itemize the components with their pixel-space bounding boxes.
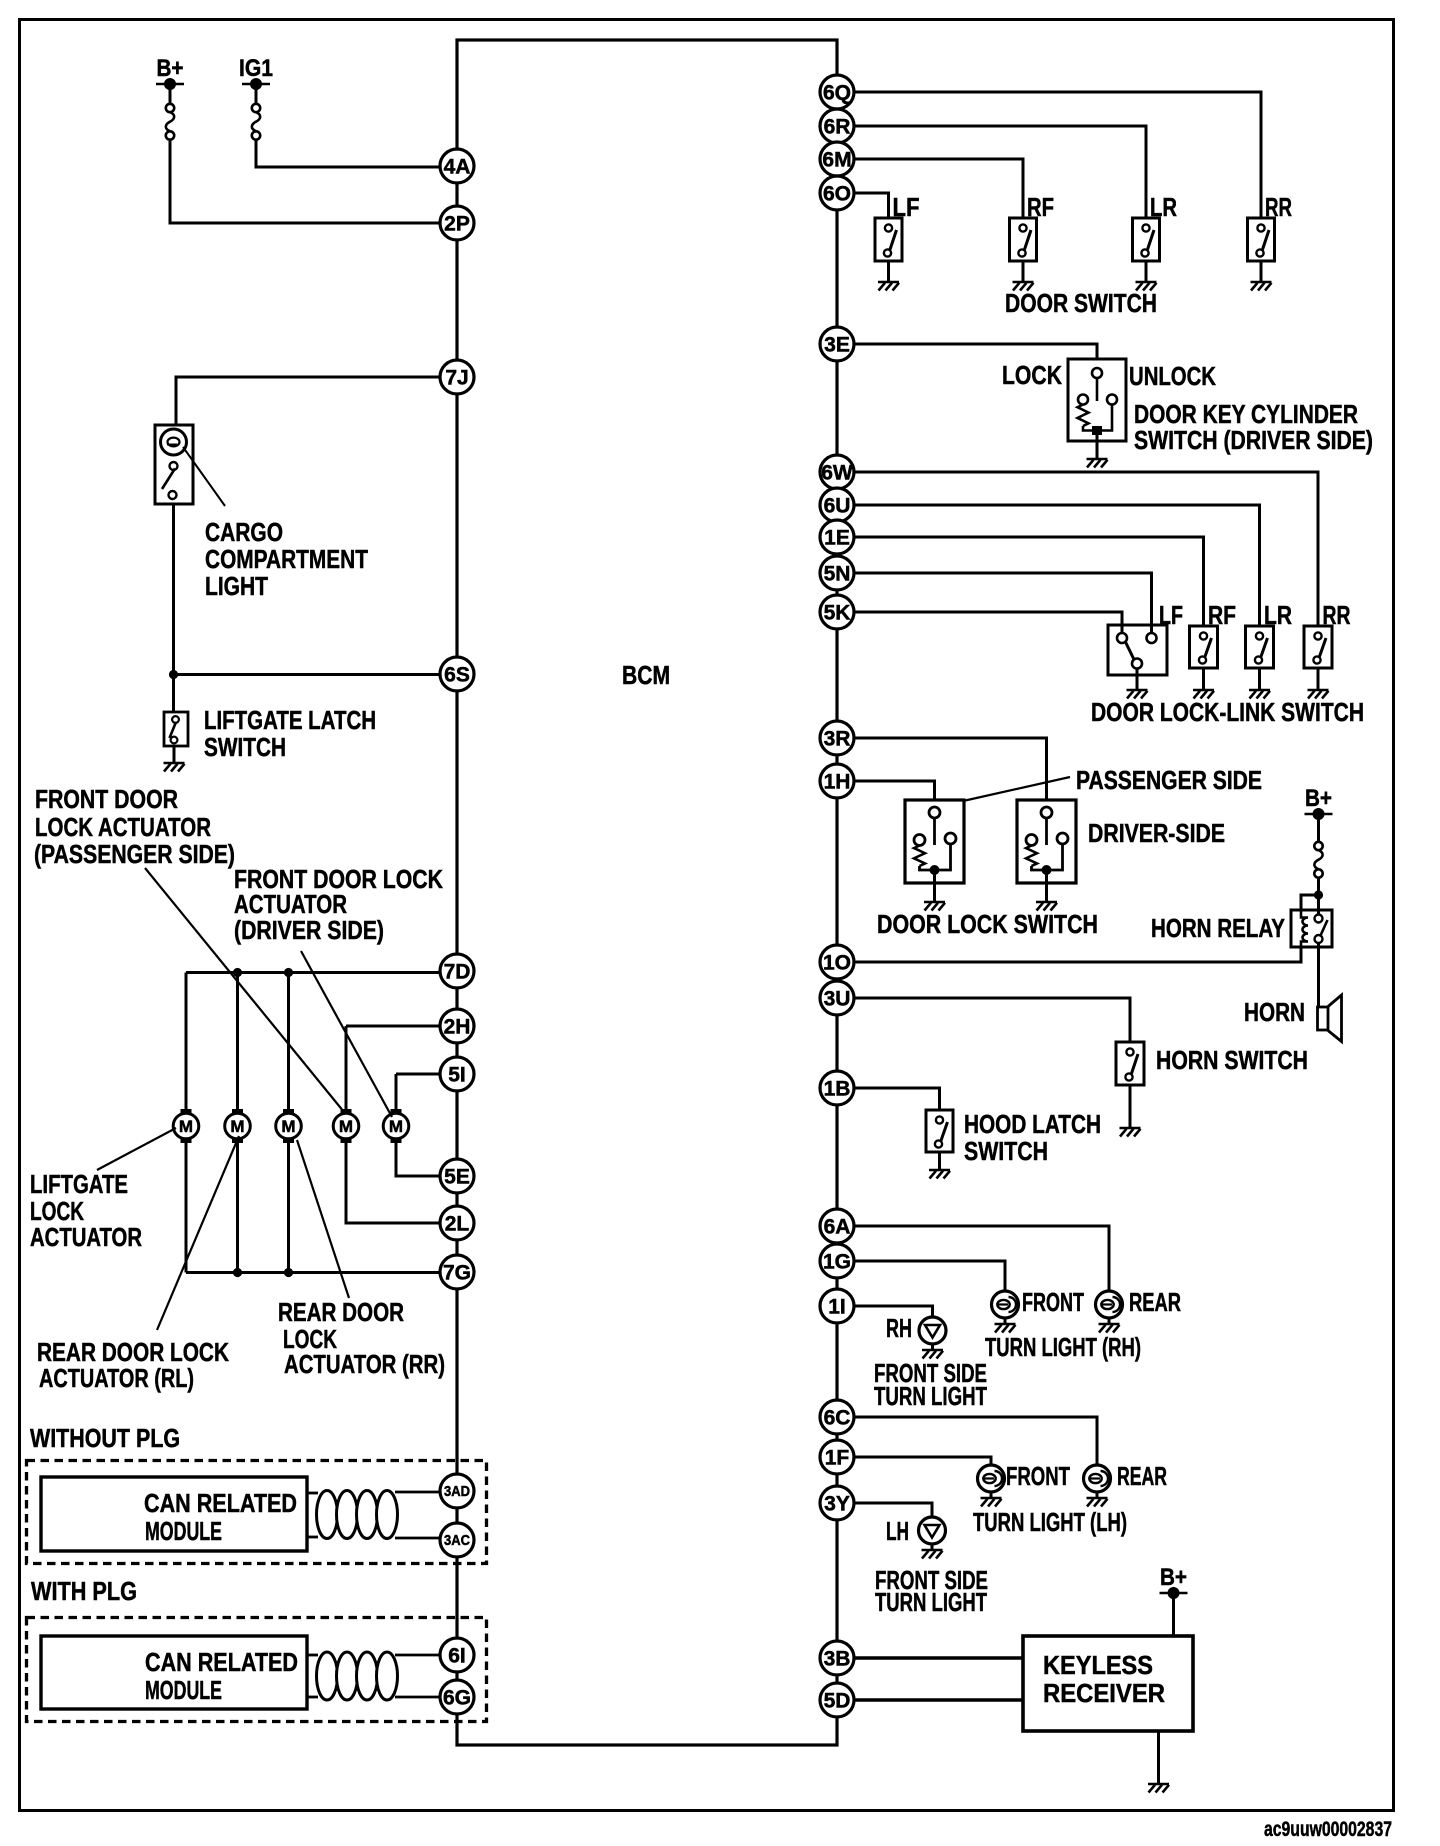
svg-text:6S: 6S (444, 664, 470, 687)
svg-text:6A: 6A (824, 1216, 851, 1239)
svg-text:7D: 7D (444, 961, 471, 984)
svg-text:LR: LR (1264, 600, 1292, 630)
svg-text:5I: 5I (448, 1064, 466, 1087)
svg-text:B+: B+ (1305, 785, 1332, 812)
svg-text:PASSENGER SIDE: PASSENGER SIDE (1076, 765, 1262, 795)
svg-text:3U: 3U (824, 988, 851, 1011)
svg-text:WITH PLG: WITH PLG (31, 1576, 137, 1606)
svg-text:CAN RELATED: CAN RELATED (145, 1647, 298, 1677)
svg-text:3B: 3B (824, 1648, 851, 1671)
svg-text:5E: 5E (444, 1166, 470, 1189)
svg-text:RR: RR (1265, 192, 1292, 222)
svg-text:2L: 2L (445, 1213, 470, 1236)
svg-text:1F: 1F (825, 1447, 850, 1470)
svg-text:3R: 3R (824, 728, 851, 751)
svg-text:UNLOCK: UNLOCK (1129, 361, 1216, 391)
svg-text:RECEIVER: RECEIVER (1043, 1678, 1165, 1708)
svg-text:6M: 6M (822, 149, 851, 172)
svg-text:5N: 5N (824, 563, 851, 586)
svg-text:(PASSENGER SIDE): (PASSENGER SIDE) (34, 839, 235, 869)
svg-text:RF: RF (1027, 192, 1054, 222)
svg-text:3AC: 3AC (444, 1533, 470, 1549)
svg-text:LH: LH (886, 1516, 909, 1546)
svg-text:ACTUATOR: ACTUATOR (30, 1222, 142, 1252)
svg-text:CARGO: CARGO (205, 517, 283, 547)
svg-text:RH: RH (886, 1313, 912, 1343)
svg-text:M: M (179, 1117, 193, 1136)
svg-text:TURN LIGHT: TURN LIGHT (875, 1587, 987, 1617)
svg-text:6O: 6O (823, 183, 851, 206)
svg-text:6U: 6U (824, 495, 851, 518)
svg-text:1I: 1I (828, 1296, 846, 1319)
svg-text:FRONT DOOR: FRONT DOOR (35, 784, 178, 814)
svg-text:ACTUATOR (RL): ACTUATOR (RL) (39, 1363, 194, 1393)
svg-text:LOCK ACTUATOR: LOCK ACTUATOR (35, 812, 211, 842)
svg-text:TURN LIGHT (LH): TURN LIGHT (LH) (973, 1507, 1127, 1537)
svg-text:2P: 2P (444, 213, 470, 236)
svg-text:LIFTGATE: LIFTGATE (30, 1169, 128, 1199)
svg-text:6R: 6R (824, 116, 851, 139)
svg-text:LIFTGATE LATCH: LIFTGATE LATCH (204, 705, 376, 735)
svg-text:KEYLESS: KEYLESS (1043, 1650, 1153, 1680)
svg-text:5D: 5D (824, 1690, 851, 1713)
svg-text:REAR: REAR (1129, 1287, 1181, 1317)
svg-text:6C: 6C (824, 1407, 851, 1430)
svg-text:IG1: IG1 (239, 55, 273, 82)
svg-text:(DRIVER SIDE): (DRIVER SIDE) (234, 915, 384, 945)
svg-text:6I: 6I (448, 1645, 466, 1668)
svg-text:LF: LF (893, 192, 920, 222)
svg-text:HORN: HORN (1244, 997, 1305, 1027)
svg-text:COMPARTMENT: COMPARTMENT (205, 544, 368, 574)
svg-text:LF: LF (1159, 600, 1183, 630)
svg-text:DRIVER-SIDE: DRIVER-SIDE (1088, 818, 1225, 848)
svg-text:MODULE: MODULE (145, 1675, 222, 1705)
svg-text:7G: 7G (443, 1262, 471, 1285)
svg-text:SWITCH (DRIVER SIDE): SWITCH (DRIVER SIDE) (1134, 425, 1373, 455)
svg-text:6G: 6G (443, 1687, 471, 1710)
svg-text:5K: 5K (824, 602, 851, 625)
svg-text:3Y: 3Y (824, 1493, 850, 1516)
svg-text:ACTUATOR (RR): ACTUATOR (RR) (284, 1349, 445, 1379)
svg-text:RR: RR (1323, 600, 1351, 630)
svg-text:REAR DOOR: REAR DOOR (278, 1297, 404, 1327)
svg-text:M: M (230, 1117, 244, 1136)
svg-text:1O: 1O (823, 952, 851, 975)
svg-text:B+: B+ (157, 55, 184, 82)
svg-text:MODULE: MODULE (145, 1516, 222, 1546)
svg-text:HORN SWITCH: HORN SWITCH (1156, 1045, 1308, 1075)
svg-text:FRONT: FRONT (1022, 1287, 1084, 1317)
svg-text:FRONT: FRONT (1006, 1461, 1070, 1491)
svg-text:M: M (281, 1117, 295, 1136)
svg-text:BCM: BCM (622, 660, 670, 690)
svg-text:HORN RELAY: HORN RELAY (1151, 913, 1285, 943)
svg-text:LIGHT: LIGHT (205, 571, 268, 601)
svg-text:LR: LR (1150, 192, 1177, 222)
svg-text:WITHOUT PLG: WITHOUT PLG (30, 1423, 180, 1453)
svg-text:1B: 1B (824, 1078, 851, 1101)
svg-text:SWITCH: SWITCH (204, 732, 286, 762)
svg-text:4A: 4A (444, 156, 471, 179)
svg-text:6W: 6W (821, 462, 853, 485)
svg-text:CAN RELATED: CAN RELATED (144, 1488, 297, 1518)
svg-text:ac9uuw00002837: ac9uuw00002837 (1264, 1818, 1392, 1841)
svg-text:B+: B+ (1160, 1564, 1187, 1591)
svg-text:DOOR LOCK SWITCH: DOOR LOCK SWITCH (877, 909, 1098, 939)
svg-text:HOOD LATCH: HOOD LATCH (964, 1109, 1101, 1139)
svg-text:M: M (389, 1117, 403, 1136)
svg-text:6Q: 6Q (823, 82, 851, 105)
svg-text:7J: 7J (445, 367, 468, 390)
svg-text:DOOR LOCK-LINK SWITCH: DOOR LOCK-LINK SWITCH (1091, 697, 1364, 727)
svg-text:1E: 1E (824, 527, 850, 550)
svg-text:M: M (339, 1117, 353, 1136)
svg-text:3E: 3E (824, 334, 850, 357)
svg-text:LOCK: LOCK (1002, 360, 1062, 390)
svg-text:RF: RF (1208, 600, 1236, 630)
svg-text:TURN LIGHT: TURN LIGHT (874, 1381, 987, 1411)
svg-text:2H: 2H (444, 1016, 471, 1039)
svg-text:REAR: REAR (1117, 1461, 1167, 1491)
svg-text:DOOR SWITCH: DOOR SWITCH (1005, 288, 1157, 318)
svg-text:1H: 1H (824, 771, 851, 794)
svg-text:3AD: 3AD (444, 1484, 470, 1500)
svg-text:1G: 1G (823, 1251, 851, 1274)
svg-text:SWITCH: SWITCH (964, 1136, 1048, 1166)
svg-text:TURN LIGHT (RH): TURN LIGHT (RH) (985, 1332, 1141, 1362)
